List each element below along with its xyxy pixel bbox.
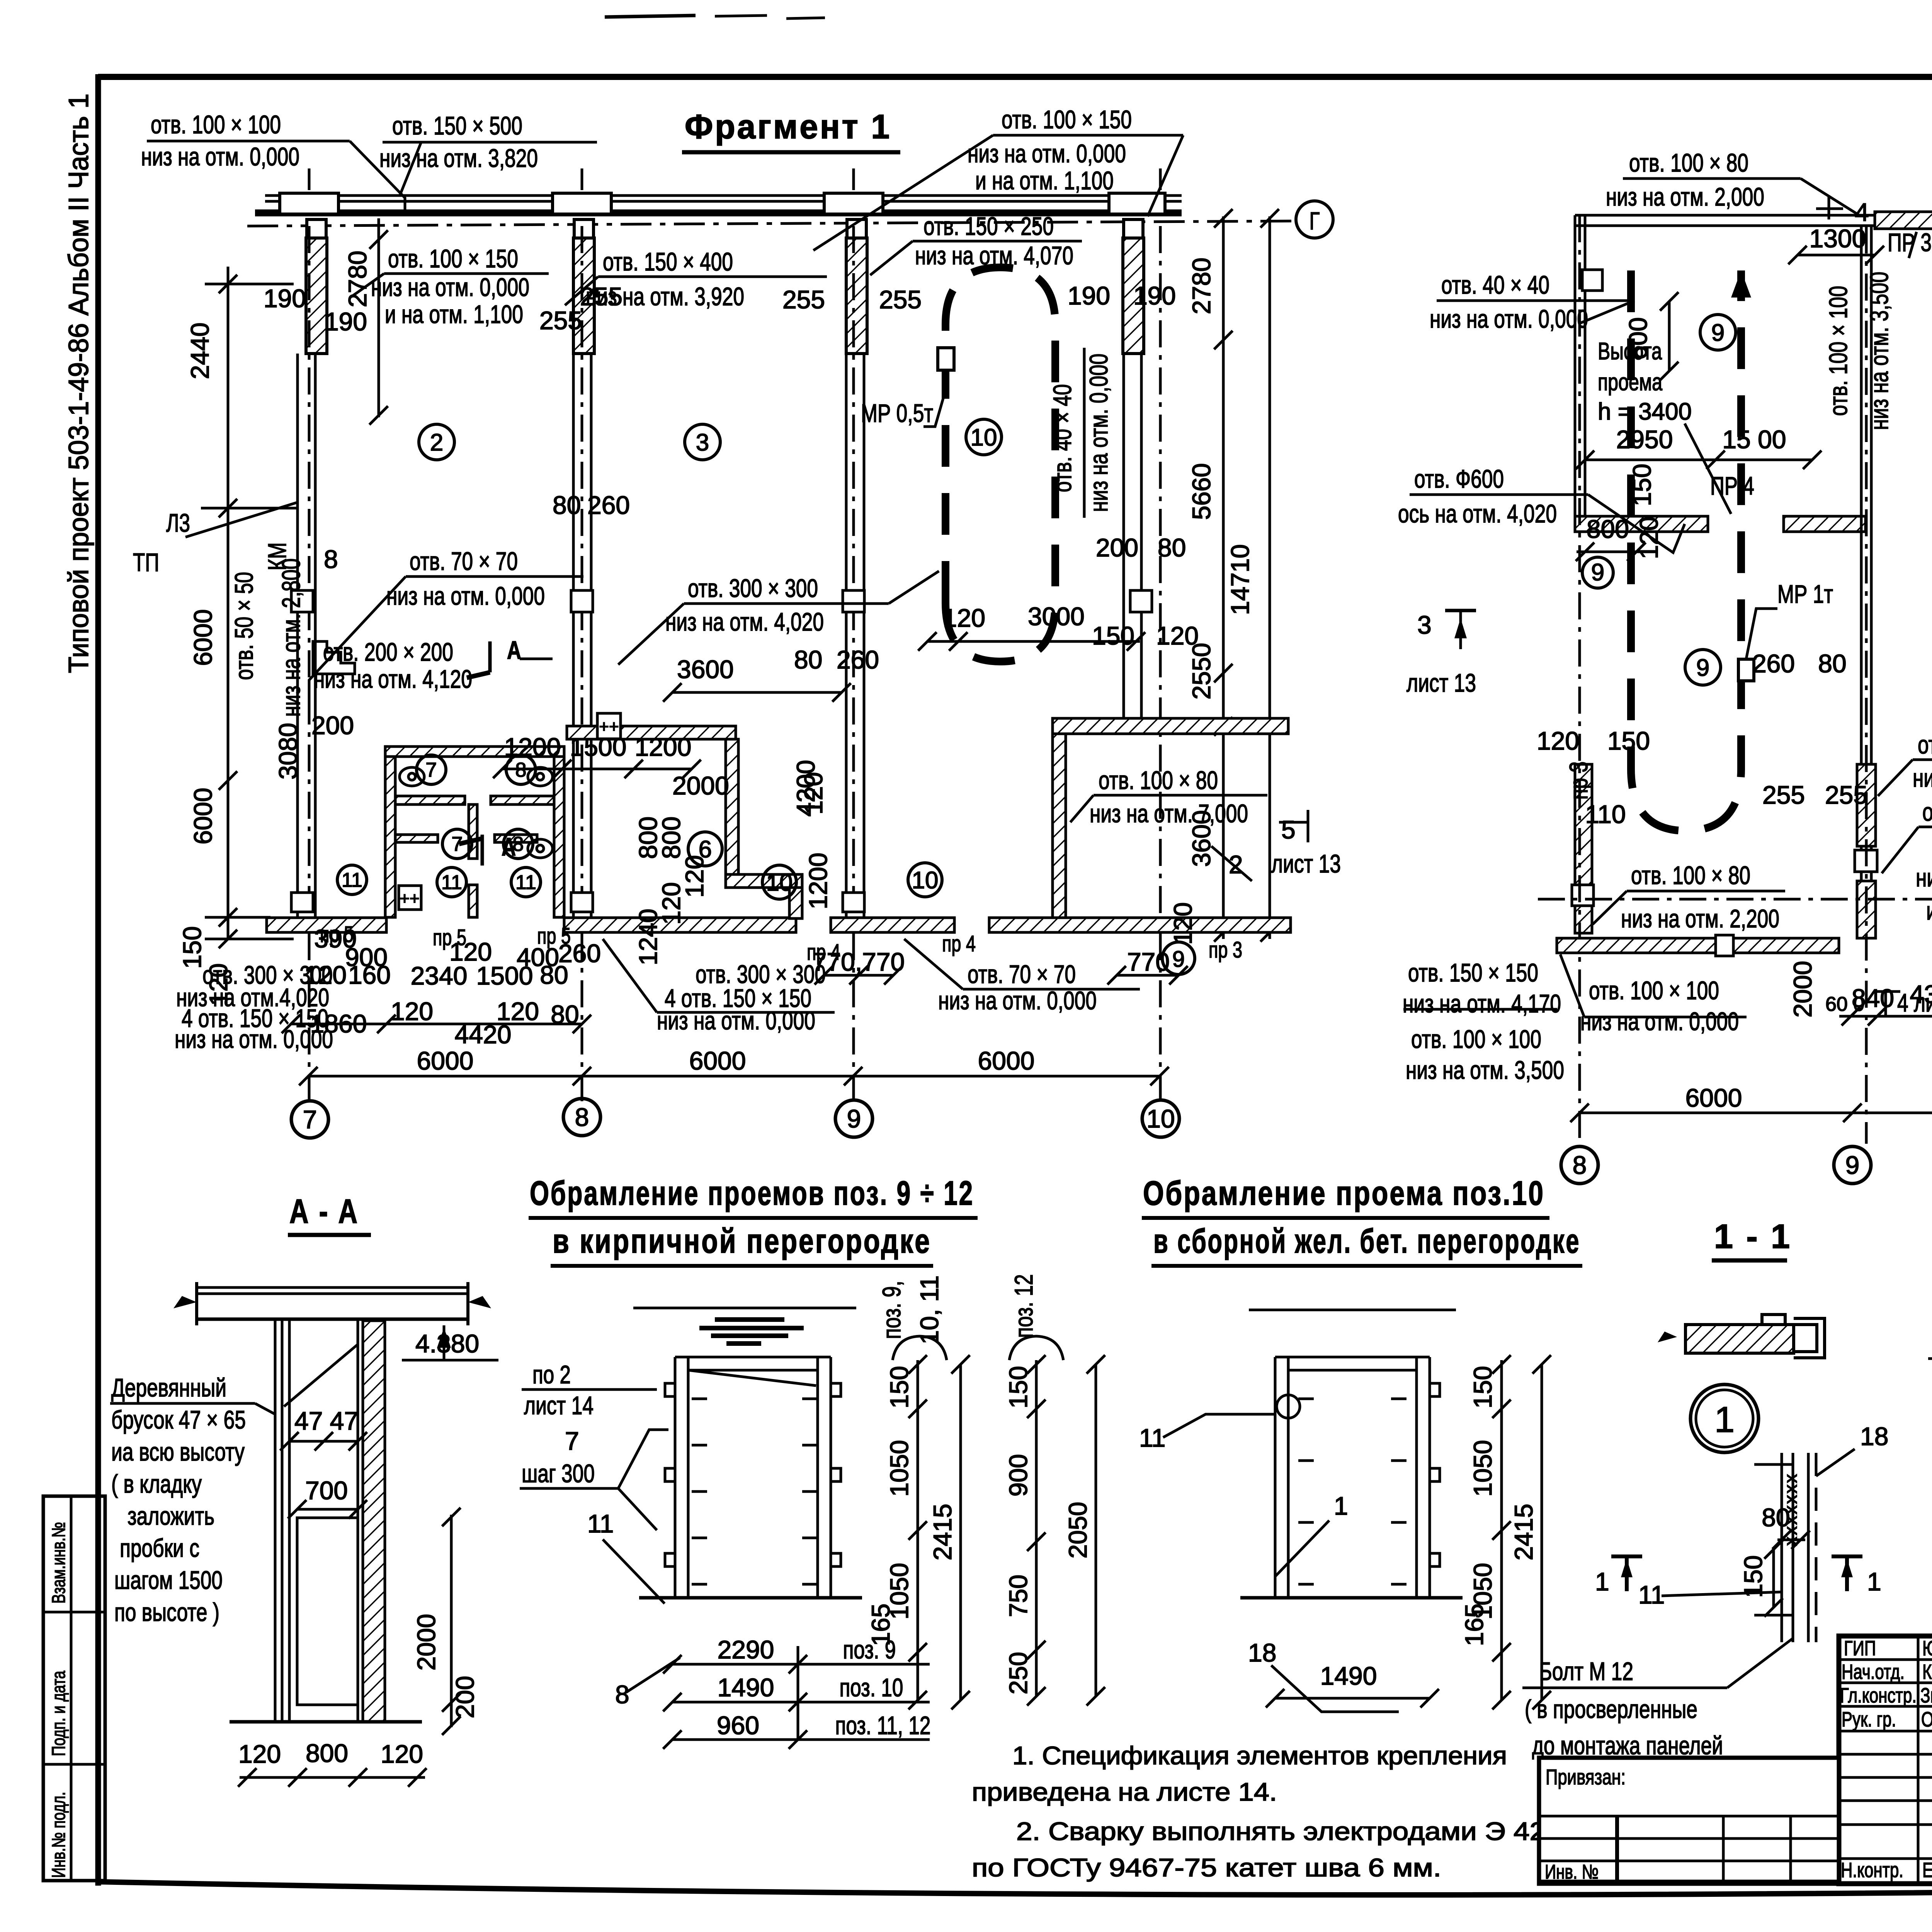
svg-text:низ на отм. 0,000: низ на отм. 0,000	[1580, 1007, 1739, 1036]
svg-text:2290: 2290	[718, 1635, 774, 1664]
svg-text:9: 9	[1172, 947, 1185, 972]
svg-text:низ на отм. 7,000: низ на отм. 7,000	[1090, 799, 1248, 828]
svg-text:отв. 40 × 40: отв. 40 × 40	[1048, 384, 1077, 492]
svg-text:отв. 100 × 100: отв. 100 × 100	[1824, 286, 1852, 416]
svg-text:Рук. гр.: Рук. гр.	[1842, 1708, 1896, 1731]
svg-text:190: 190	[1068, 281, 1110, 310]
svg-text:1490: 1490	[718, 1673, 774, 1702]
svg-text:900: 900	[1004, 1454, 1032, 1497]
svg-text:190: 190	[1133, 281, 1176, 310]
svg-text:А: А	[507, 636, 521, 664]
svg-text:xxxxxxx: xxxxxxx	[1781, 1473, 1801, 1546]
svg-text:160: 160	[348, 961, 391, 989]
svg-text:++: ++	[400, 889, 419, 908]
svg-text:шаг 300: шаг 300	[522, 1459, 595, 1488]
svg-text:отв. 100 × 100: отв. 100 × 100	[1589, 976, 1719, 1005]
svg-text:600: 600	[1624, 317, 1652, 360]
svg-text:1. Спецификация элементов кр: 1. Спецификация элементов крепления	[1012, 1741, 1507, 1770]
svg-text:190: 190	[325, 307, 367, 336]
svg-text:низ на отм. 3,500: низ на отм. 3,500	[1406, 1056, 1564, 1084]
svg-text:10: 10	[971, 424, 997, 451]
svg-text:260: 260	[1752, 649, 1795, 678]
svg-text:260: 260	[587, 491, 630, 519]
svg-text:110: 110	[1585, 800, 1626, 828]
svg-text:250: 250	[1004, 1652, 1032, 1694]
svg-text:в сборной жел. бет. перегородк: в сборной жел. бет. перегородке	[1153, 1222, 1580, 1260]
svg-text:1: 1	[1714, 1399, 1735, 1440]
svg-text:Л3: Л3	[166, 509, 190, 537]
svg-text:2000: 2000	[672, 771, 729, 800]
svg-text:низ на отм. 0,000: низ на отм. 0,000	[657, 1006, 815, 1035]
svg-text:отв. 50 × 50: отв. 50 × 50	[230, 572, 258, 680]
svg-text:9: 9	[1696, 655, 1709, 681]
svg-text:165: 165	[1460, 1604, 1488, 1646]
svg-text:Типовой проект 503-1-49-86 Аль: Типовой проект 503-1-49-86 Альбом II Час…	[63, 94, 94, 673]
svg-text:низ на отм. 4,170: низ на отм. 4,170	[1403, 989, 1561, 1018]
svg-text:и на отм. 1,100: и на отм. 1,100	[975, 166, 1114, 195]
svg-text:18: 18	[1860, 1422, 1888, 1451]
svg-text:низ на отм. 0,000: низ на отм. 0,000	[141, 142, 299, 171]
svg-text:Г: Г	[1310, 207, 1320, 235]
svg-text:2440: 2440	[185, 323, 214, 379]
svg-text:15 00: 15 00	[1722, 425, 1786, 454]
svg-text:960: 960	[717, 1711, 759, 1740]
svg-text:255: 255	[1762, 781, 1805, 809]
svg-text:Привязан:: Привязан:	[1546, 1765, 1626, 1789]
svg-text:11: 11	[1139, 1423, 1166, 1452]
svg-text:по высоте ): по высоте )	[114, 1598, 219, 1626]
svg-text:Нач.отд.: Нач.отд.	[1842, 1660, 1905, 1684]
svg-text:1200: 1200	[635, 733, 692, 761]
svg-text:120: 120	[657, 882, 685, 925]
svg-text:отв. 100 × 100: отв. 100 × 100	[1411, 1025, 1541, 1053]
svg-text:отв. 150 × 250: отв. 150 × 250	[923, 212, 1054, 240]
svg-text:( в просверленные: ( в просверленные	[1525, 1695, 1697, 1723]
svg-text:150: 150	[1468, 1366, 1497, 1408]
svg-text:отв. 100 × 80: отв. 100 × 80	[1629, 148, 1748, 177]
svg-text:пр 3: пр 3	[1564, 762, 1593, 800]
svg-text:120: 120	[238, 1740, 281, 1768]
svg-text:1: 1	[1334, 1492, 1348, 1520]
svg-text:отв. 300 × 300: отв. 300 × 300	[688, 574, 818, 602]
svg-text:отв. 70 × 70: отв. 70 × 70	[410, 547, 518, 575]
svg-text:10: 10	[912, 867, 939, 894]
svg-text:18: 18	[1248, 1638, 1276, 1667]
svg-text:2000: 2000	[1788, 961, 1817, 1018]
svg-text:47 47: 47 47	[294, 1406, 358, 1435]
svg-text:255: 255	[539, 306, 582, 335]
svg-text:отв. 40 × 40: отв. 40 × 40	[1441, 270, 1549, 299]
svg-text:низ на отм. 3,500: низ на отм. 3,500	[1865, 272, 1893, 430]
svg-text:1500: 1500	[570, 733, 627, 761]
svg-text:255: 255	[580, 282, 622, 311]
svg-text:1050: 1050	[1468, 1440, 1497, 1497]
svg-text:приведена на листе 14.: приведена на листе 14.	[972, 1777, 1277, 1806]
svg-text:2415: 2415	[1509, 1504, 1538, 1561]
svg-text:120: 120	[497, 997, 539, 1026]
svg-text:лист 13: лист 13	[1271, 849, 1341, 878]
svg-text:отв. 100 × 100: отв. 100 × 100	[151, 110, 281, 139]
svg-text:по ГОСТу 9467-75 катет шва: по ГОСТу 9467-75 катет шва 6 мм.	[972, 1853, 1441, 1882]
svg-text:8: 8	[575, 1103, 589, 1131]
svg-text:10, 11: 10, 11	[915, 1276, 944, 1345]
svg-text:255: 255	[879, 285, 922, 314]
svg-text:5660: 5660	[1187, 463, 1216, 520]
svg-text:700: 700	[305, 1476, 348, 1505]
svg-text:ТП: ТП	[133, 548, 159, 577]
svg-text:отв. 100 × 150: отв. 100 × 150	[388, 244, 518, 273]
svg-text:пр 5: пр 5	[537, 923, 571, 949]
svg-text:2780: 2780	[343, 251, 372, 308]
svg-text:200: 200	[1096, 533, 1138, 562]
svg-text:2: 2	[430, 429, 443, 456]
svg-text:пр 5: пр 5	[433, 925, 466, 950]
svg-text:Юрин: Юрин	[1922, 1637, 1932, 1660]
svg-text:до монтажа панелей: до монтажа панелей	[1532, 1731, 1723, 1760]
svg-text:14710: 14710	[1226, 544, 1254, 615]
svg-text:4 лист 13: 4 лист 13	[1897, 988, 1932, 1017]
svg-text:Инв. №: Инв. №	[1545, 1861, 1599, 1883]
svg-text:низ на отм. 0,000: низ на отм. 0,000	[386, 582, 545, 610]
svg-text:1: 1	[1595, 1567, 1609, 1596]
svg-text:Фрагмент 1: Фрагмент 1	[685, 107, 891, 146]
svg-text:иа всю высоту: иа всю высоту	[111, 1437, 245, 1466]
svg-text:3: 3	[1417, 611, 1432, 639]
svg-text:Катков: Катков	[1922, 1660, 1932, 1684]
svg-text:в кирпичной перегородке: в кирпичной перегородке	[553, 1222, 931, 1260]
svg-text:пр 5: пр 5	[320, 922, 354, 947]
svg-text:120: 120	[1156, 621, 1199, 650]
svg-text:7: 7	[426, 759, 437, 781]
svg-text:120: 120	[1537, 726, 1579, 755]
svg-text:11: 11	[342, 869, 362, 891]
svg-text:( в кладку: ( в кладку	[111, 1469, 202, 1498]
svg-text:8: 8	[1573, 1151, 1587, 1179]
svg-text:Взам.инв.№: Взам.инв.№	[49, 1522, 69, 1604]
svg-text:МР 0,5т: МР 0,5т	[861, 399, 933, 427]
svg-text:150: 150	[1092, 621, 1134, 650]
svg-text:6000: 6000	[978, 1046, 1035, 1075]
svg-text:отв. Ф600: отв. Ф600	[1414, 464, 1504, 493]
svg-text:1490: 1490	[1320, 1662, 1377, 1690]
svg-text:1: 1	[1867, 1567, 1881, 1596]
svg-text:поз. 9,: поз. 9,	[877, 1281, 906, 1339]
svg-text:120: 120	[1168, 902, 1197, 945]
svg-text:150: 150	[1607, 726, 1650, 755]
svg-text:1300: 1300	[1810, 224, 1866, 253]
svg-text:пр 4: пр 4	[942, 931, 976, 956]
svg-text:ГИП: ГИП	[1844, 1637, 1876, 1660]
svg-text:260: 260	[837, 645, 879, 674]
svg-text:низ на отм. 0,100: низ на отм. 0,100	[1916, 863, 1932, 892]
svg-text:заложить: заложить	[128, 1502, 214, 1530]
svg-text:1050: 1050	[885, 1440, 913, 1497]
svg-text:низ на отм. 4,020: низ на отм. 4,020	[665, 607, 824, 636]
svg-text:Есина: Есина	[1922, 1859, 1932, 1882]
svg-text:80: 80	[553, 491, 581, 519]
svg-text:2415: 2415	[928, 1504, 957, 1561]
svg-text:лист 14: лист 14	[524, 1391, 594, 1420]
svg-text:отв. 100 × 80: отв. 100 × 80	[1099, 766, 1218, 794]
svg-text:2780: 2780	[1187, 258, 1216, 315]
svg-text:и на отм. 1,100: и на отм. 1,100	[385, 300, 523, 328]
svg-text:отв. 70 × 70: отв. 70 × 70	[968, 960, 1076, 988]
svg-text:А: А	[502, 832, 516, 861]
svg-text:1 - 1: 1 - 1	[1714, 1217, 1792, 1255]
svg-text:поз. 11, 12: поз. 11, 12	[835, 1711, 931, 1740]
svg-text:9: 9	[1711, 320, 1725, 346]
svg-text:2950: 2950	[1616, 425, 1673, 454]
svg-text:120: 120	[381, 1740, 423, 1768]
svg-text:200: 200	[311, 711, 354, 740]
svg-text:7: 7	[565, 1427, 579, 1455]
svg-text:проема: проема	[1598, 369, 1662, 396]
svg-text:120: 120	[391, 997, 433, 1026]
svg-text:80: 80	[1158, 533, 1186, 562]
svg-text:9: 9	[847, 1104, 861, 1133]
svg-text:низ на отм. 2,000: низ на отм. 2,000	[1606, 182, 1764, 211]
svg-text:150: 150	[1628, 464, 1656, 506]
svg-text:11: 11	[515, 871, 536, 894]
svg-text:6000: 6000	[689, 1046, 746, 1075]
svg-text:3600: 3600	[677, 655, 734, 684]
svg-text:поз. 9: поз. 9	[843, 1635, 896, 1664]
svg-text:Оруджева: Оруджева	[1921, 1708, 1932, 1731]
svg-text:80: 80	[1818, 649, 1846, 678]
svg-text:низ на отм. 0,000: низ на отм. 0,000	[1430, 304, 1588, 333]
svg-text:8: 8	[615, 1680, 629, 1709]
svg-text:6000: 6000	[189, 788, 217, 845]
svg-text:низ на отм. 4,120: низ на отм. 4,120	[314, 665, 472, 693]
svg-text:190: 190	[264, 284, 306, 313]
svg-text:брусок 47 × 65: брусок 47 × 65	[111, 1405, 246, 1434]
svg-text:120: 120	[943, 604, 985, 632]
svg-text:низ на отм. 0,000: низ на отм. 0,000	[175, 1025, 333, 1053]
svg-text:низ на отм. 0,000: низ на отм. 0,000	[968, 139, 1126, 168]
svg-text:отв.100 × 100: отв.100 × 100	[1922, 798, 1932, 826]
svg-text:МР 1т: МР 1т	[1777, 580, 1833, 608]
svg-text:лист 13: лист 13	[1406, 668, 1476, 697]
svg-text:по 2: по 2	[532, 1360, 571, 1389]
svg-text:2050: 2050	[1063, 1502, 1092, 1559]
svg-text:Подп. и дата: Подп. и дата	[49, 1671, 69, 1756]
svg-text:10: 10	[1146, 1104, 1175, 1133]
svg-text:отв. 100 × 80: отв. 100 × 80	[1631, 861, 1750, 889]
svg-text:11: 11	[441, 871, 462, 894]
svg-text:150: 150	[178, 926, 206, 969]
svg-text:поз. 10: поз. 10	[840, 1673, 903, 1702]
svg-text:низ на отм. 4,070: низ на отм. 4,070	[1913, 764, 1932, 792]
svg-text:пр 3: пр 3	[1209, 937, 1242, 963]
svg-text:6000: 6000	[189, 609, 217, 666]
svg-text:низ на отм. 2,800: низ на отм. 2,800	[277, 558, 305, 717]
svg-text:2550: 2550	[1187, 643, 1216, 700]
svg-text:отв. 150 × 150: отв. 150 × 150	[1408, 958, 1538, 987]
svg-text:отв. 100 × 150: отв. 100 × 150	[1002, 105, 1132, 134]
svg-text:Обрамление проема поз.10: Обрамление проема поз.10	[1143, 1174, 1545, 1212]
svg-text:3000: 3000	[1028, 602, 1085, 631]
svg-text:поз. 12: поз. 12	[1009, 1274, 1038, 1338]
svg-text:7: 7	[303, 1105, 317, 1134]
svg-text:750: 750	[1004, 1575, 1032, 1617]
svg-text:Деревянный: Деревянный	[111, 1373, 226, 1402]
svg-text:60 0: 60 0	[1825, 993, 1864, 1015]
svg-text:150: 150	[885, 1366, 913, 1408]
svg-text:ПР 4: ПР 4	[1710, 471, 1754, 500]
svg-text:шагом 1500: шагом 1500	[114, 1566, 223, 1594]
svg-text:5: 5	[1281, 815, 1296, 844]
svg-text:Болт М 12: Болт М 12	[1539, 1657, 1633, 1685]
svg-text:2000: 2000	[412, 1614, 440, 1671]
svg-text:80: 80	[794, 645, 822, 674]
svg-text:отв. 200 × 200: отв. 200 × 200	[323, 638, 453, 666]
svg-text:3080: 3080	[274, 723, 302, 780]
svg-text:h = 3400: h = 3400	[1598, 398, 1692, 425]
svg-text:9: 9	[1591, 559, 1604, 586]
svg-text:3: 3	[696, 429, 709, 456]
svg-text:низ на отм. 2,200: низ на отм. 2,200	[1621, 904, 1779, 933]
svg-text:низ на отм. 4,070: низ на отм. 4,070	[915, 241, 1073, 270]
svg-text:низ на отм. 3,820: низ на отм. 3,820	[379, 144, 538, 172]
svg-text:низ на отм. 0,000: низ на отм. 0,000	[1084, 354, 1113, 512]
svg-text:отв. 150 × 500: отв. 150 × 500	[392, 111, 522, 140]
svg-text:и на отм. 1,100: и на отм. 1,100	[1926, 896, 1932, 925]
svg-text:Обрамление проемов поз. 9 ÷: Обрамление проемов поз. 9 ÷ 12	[530, 1174, 974, 1212]
svg-text:800: 800	[657, 816, 685, 859]
svg-text:А - А: А - А	[289, 1192, 359, 1230]
svg-text:отв. 150 × 400: отв. 150 × 400	[603, 247, 733, 276]
svg-text:Инв.№ подл.: Инв.№ подл.	[49, 1792, 69, 1878]
svg-text:6000: 6000	[417, 1046, 474, 1075]
svg-text:КМ: КМ	[263, 543, 291, 571]
svg-text:6000: 6000	[1685, 1083, 1742, 1112]
svg-text:4: 4	[1855, 198, 1869, 226]
svg-text:11: 11	[1638, 1580, 1665, 1609]
svg-text:10: 10	[766, 869, 793, 896]
svg-text:255: 255	[1825, 781, 1867, 809]
svg-text:Гл.констр.: Гл.констр.	[1840, 1684, 1917, 1707]
svg-text:800: 800	[306, 1739, 348, 1767]
svg-text:4200: 4200	[791, 760, 820, 817]
svg-text:255: 255	[782, 285, 825, 314]
svg-text:1200: 1200	[804, 853, 832, 910]
svg-text:11: 11	[587, 1509, 614, 1538]
svg-text:2. Сварку выполнять электрод: 2. Сварку выполнять электродами Э 42	[1016, 1817, 1546, 1845]
svg-text:ось на отм. 4,020: ось на отм. 4,020	[1398, 499, 1557, 528]
svg-text:150: 150	[1004, 1366, 1032, 1408]
svg-text:120: 120	[1634, 517, 1663, 559]
svg-text:пробки с: пробки с	[120, 1534, 199, 1562]
svg-text:8: 8	[324, 545, 338, 573]
svg-text:1200: 1200	[504, 733, 561, 761]
svg-text:9: 9	[1845, 1151, 1860, 1179]
svg-text:отв.150 × 250: отв.150 × 250	[1918, 730, 1932, 759]
svg-text:Зильбертов: Зильбертов	[1920, 1684, 1932, 1707]
svg-text:низ на отм. 0,000: низ на отм. 0,000	[371, 273, 529, 301]
svg-text:Н.контр.: Н.контр.	[1841, 1859, 1903, 1882]
